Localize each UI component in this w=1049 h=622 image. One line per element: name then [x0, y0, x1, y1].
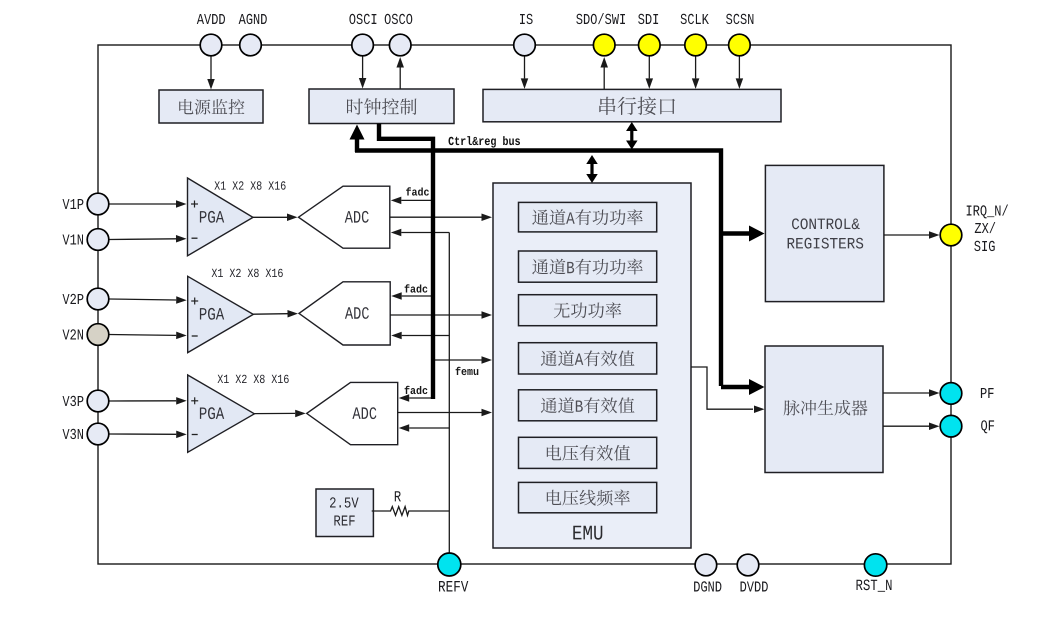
PGA U2 minus input sign — [192, 335, 198, 337]
ADC U1 pentagon — [299, 186, 390, 248]
pin SDI — [639, 34, 661, 56]
pin V3N — [87, 423, 109, 445]
EMU row box 5 — [519, 390, 657, 421]
wire IS to serial interface — [524, 56, 526, 78]
pin V1P — [87, 193, 109, 215]
control registers label line1 — [792, 218, 860, 229]
PGA U1 plus input sign — [191, 203, 198, 205]
PGA amplifier U1 triangle — [188, 178, 254, 256]
pin V3P — [87, 390, 109, 412]
ctrl bus arrow into pulse generator — [721, 385, 749, 389]
PGA amplifier U3 triangle — [188, 375, 255, 452]
voltage reference block 2.5V REF — [316, 489, 373, 537]
pin SCLK — [685, 34, 707, 56]
label IRQ_N/ — [967, 205, 1008, 219]
wire V1P to PGA1 + — [109, 203, 176, 205]
PGA U3 plus input sign — [191, 400, 198, 402]
ctrl bus from clock control elbow — [379, 124, 433, 400]
label SDO/SWI — [576, 13, 625, 24]
wire SDI to serial interface — [648, 56, 650, 78]
label DVDD — [741, 582, 768, 592]
serial interface block — [483, 89, 781, 121]
wire resistor to REFV vertical — [411, 510, 449, 512]
label V3N — [63, 429, 84, 439]
pin DVDD — [737, 554, 759, 576]
label V3P — [63, 396, 84, 406]
femu clock wire to EMU — [435, 359, 482, 361]
EMU row box 1 — [519, 202, 657, 232]
pulse generator block — [765, 346, 883, 473]
label SCLK — [681, 14, 709, 24]
wire clock control to OSCO — [399, 68, 401, 90]
EMU row label 电压线频率 — [547, 490, 630, 506]
wire V2P to PGA2 + — [109, 299, 176, 300]
EMU row box 4 — [519, 343, 657, 374]
EMU row label 通道B有功功率 — [532, 259, 643, 275]
pin IRQ_N/ZX/SIG — [940, 224, 962, 246]
label V2P — [63, 294, 84, 304]
bus double arrow EMU — [590, 160, 593, 177]
pin OSCO — [389, 34, 411, 56]
label AGND — [239, 14, 267, 24]
control registers label line2 — [788, 238, 864, 249]
label ZX/ — [975, 222, 996, 233]
EMU label — [573, 526, 602, 540]
control registers block U-CTRL — [765, 165, 884, 301]
label V2N — [63, 329, 84, 339]
wire ADC1 output to EMU — [390, 216, 482, 218]
ctrl bus horizontal trunk — [355, 151, 721, 387]
label SDI — [638, 14, 658, 24]
wire SCSN to serial interface — [738, 56, 740, 78]
pin REFV — [438, 553, 461, 576]
2.5V REF label line1 — [330, 497, 359, 507]
PGA U1 label — [200, 211, 224, 223]
PGA U2 plus input sign — [191, 300, 198, 302]
pin AGND — [240, 34, 262, 56]
wire V1N to PGA1 - — [109, 238, 176, 241]
ctrl bus arrow into clock control — [355, 140, 359, 153]
EMU row box 2 — [519, 251, 657, 282]
wire vref to ADC3 input — [409, 427, 449, 429]
wire pulse generator to PF pin — [883, 392, 929, 394]
wire OSCI to clock control — [362, 56, 364, 78]
EMU row label 通道B有效值 — [541, 397, 635, 413]
wire vref to ADC1 input — [401, 232, 449, 234]
wire control registers to IRQ_N pin — [884, 234, 929, 236]
clock control block — [309, 89, 454, 124]
EMU row label 电压有效值 — [547, 445, 630, 461]
label SCSN — [726, 14, 753, 24]
wire fadc to ADC3 — [409, 397, 433, 399]
label V1N — [63, 235, 84, 245]
label OSCI — [349, 14, 376, 24]
label REFV — [439, 581, 468, 592]
wire ADC3 output to EMU — [398, 412, 482, 414]
PGA U2 gain label X1 X2 X8 X16 — [212, 269, 283, 277]
femu label — [456, 367, 479, 375]
PGA U3 minus input sign — [192, 434, 198, 436]
wire PGA1 to ADC1 — [253, 216, 287, 218]
label IS — [520, 14, 533, 24]
PGA U1 gain label X1 X2 X8 X16 — [214, 181, 285, 189]
wire ADC2 output to EMU — [390, 314, 481, 316]
ADC U3 pentagon — [307, 382, 398, 444]
PGA U2 label — [200, 308, 224, 320]
pin SDO/SWI — [593, 34, 615, 56]
wire vref to ADC2 input — [402, 335, 450, 337]
pin OSCI — [352, 34, 374, 56]
EMU block — [493, 183, 691, 548]
resistor R value label — [395, 491, 401, 501]
wire PGA2 to ADC2 — [253, 313, 287, 316]
pin PF — [940, 383, 962, 405]
wire PGA3 to ADC3 — [254, 412, 295, 414]
EMU row box 3 — [519, 295, 657, 326]
label PF — [981, 388, 994, 398]
pin V2N — [87, 324, 109, 346]
pin SCSN — [729, 34, 751, 56]
wire SCLK to serial interface — [695, 56, 697, 78]
clock control label 时钟控制 — [347, 98, 417, 115]
EMU row label 通道A有效值 — [541, 350, 635, 366]
PGA amplifier U2 triangle — [188, 276, 254, 352]
reference voltage vertical wire — [448, 233, 450, 554]
label DGND — [694, 581, 721, 591]
ctrl bus branch arrow into control registers — [721, 231, 749, 235]
EMU row label 无功功率 — [554, 302, 622, 318]
label AVDD — [197, 14, 225, 24]
wire AVDD to power monitor — [210, 56, 212, 79]
wire V2N to PGA2 - — [109, 334, 176, 337]
label V1P — [63, 199, 84, 209]
ADC U3 label — [352, 407, 376, 419]
serial interface label 串行接口 — [599, 97, 675, 115]
fadc label 1 — [406, 187, 429, 195]
wire V3N to PGA3 - — [109, 433, 176, 435]
PGA U3 label — [200, 407, 224, 419]
pin V2P — [87, 288, 109, 310]
wire fadc to ADC1 — [401, 199, 433, 201]
ctrl bus label Ctrl&reg bus — [449, 136, 521, 148]
EMU row label 通道A有功功率 — [532, 209, 643, 225]
pin IS — [514, 34, 536, 56]
fadc label 3 — [405, 386, 428, 394]
wire EMU to pulse generator — [691, 367, 753, 409]
pin QF — [940, 415, 962, 437]
bus double arrow serial interface — [630, 128, 633, 144]
PGA U3 gain label X1 X2 X8 X16 — [218, 375, 289, 383]
ADC U2 label — [345, 307, 369, 319]
power monitor block — [159, 90, 263, 123]
pin V1N — [87, 229, 109, 251]
label SIG — [974, 241, 994, 251]
fadc label 2 — [405, 284, 428, 292]
EMU row box 7 — [519, 482, 657, 512]
label RST_N — [857, 580, 892, 592]
pin RST_N — [864, 554, 886, 576]
chip outer boundary — [98, 45, 951, 564]
resistor R zigzag — [372, 507, 411, 516]
wire pulse generator to QF pin — [883, 425, 929, 427]
power monitor label 电源监控 — [179, 99, 244, 115]
ADC U1 label — [345, 211, 369, 223]
wire serial interface to SDO/SWI — [603, 68, 605, 90]
EMU row box 6 — [519, 437, 657, 468]
label QF — [981, 420, 994, 433]
2.5V REF label line2 — [334, 516, 354, 526]
pin AVDD — [200, 34, 222, 56]
PGA U1 minus input sign — [192, 237, 198, 239]
pulse generator label 脉冲生成器 — [784, 400, 868, 416]
label OSCO — [385, 14, 413, 24]
wire V3P to PGA3 + — [109, 400, 176, 402]
pin DGND — [695, 554, 717, 576]
wire fadc to ADC2 — [402, 295, 433, 297]
ADC U2 pentagon — [299, 282, 390, 345]
